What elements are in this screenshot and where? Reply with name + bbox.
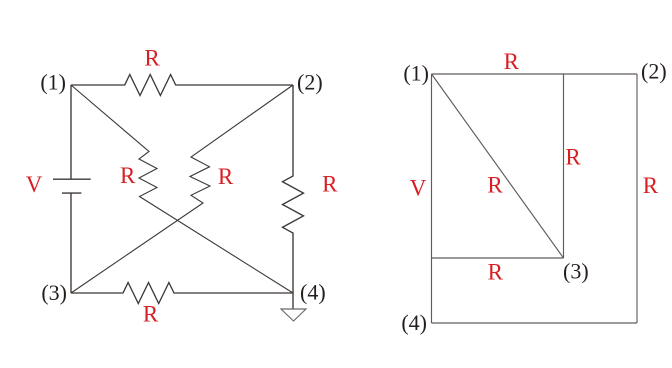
svg-text:R: R bbox=[565, 144, 581, 169]
svg-text:R: R bbox=[488, 259, 504, 284]
svg-text:(4): (4) bbox=[401, 310, 427, 335]
battery V short plate bbox=[62, 192, 81, 194]
svg-text:(2): (2) bbox=[641, 59, 667, 84]
wire: right fig right edge (2) down bbox=[636, 74, 638, 323]
svg-text:R: R bbox=[218, 164, 234, 189]
svg-text:(2): (2) bbox=[297, 70, 323, 95]
svg-text:R: R bbox=[504, 49, 520, 74]
wire: right fig top side (1)-(2) bbox=[432, 73, 638, 75]
svg-text:(4): (4) bbox=[300, 280, 326, 305]
svg-text:V: V bbox=[26, 172, 43, 197]
wire: right fig bottom edge (4) to right bbox=[432, 322, 638, 324]
wire: right side with resistor R (2)-(4) bbox=[283, 85, 304, 293]
svg-text:(3): (3) bbox=[563, 259, 589, 284]
svg-text:(3): (3) bbox=[41, 280, 67, 305]
wire: right fig left edge (1)-(4) bbox=[431, 74, 433, 323]
wire: right fig diagonal (1)-(3) bbox=[432, 74, 564, 258]
svg-text:R: R bbox=[143, 302, 159, 327]
wire: bottom side with resistor R (3)-(4) bbox=[71, 283, 293, 304]
wire: left edge bottom segment from battery to node (3) bbox=[70, 193, 72, 293]
wire: left fig top side with resistor R (1)-(2) bbox=[71, 75, 293, 96]
svg-text:R: R bbox=[120, 163, 136, 188]
battery V long plate bbox=[53, 178, 91, 180]
wire: left edge top segment from node (1) to battery bbox=[70, 85, 72, 179]
svg-text:R: R bbox=[643, 173, 659, 198]
svg-text:R: R bbox=[322, 172, 338, 197]
wire: right fig middle horizontal to (3) bbox=[432, 257, 564, 259]
svg-text:R: R bbox=[487, 173, 503, 198]
ground symbol bbox=[281, 309, 306, 321]
svg-text:R: R bbox=[144, 45, 160, 70]
wire: diagonal (2)-(3) with resistor R bbox=[71, 85, 293, 293]
wire: right fig middle vertical to (3) bbox=[563, 74, 565, 258]
svg-text:V: V bbox=[410, 176, 427, 201]
svg-text:(1): (1) bbox=[403, 61, 429, 86]
wire: ground lead below node (4) bbox=[292, 293, 294, 309]
svg-text:(1): (1) bbox=[40, 70, 66, 95]
wire: diagonal (1)-(4) with resistor R bbox=[71, 85, 293, 293]
